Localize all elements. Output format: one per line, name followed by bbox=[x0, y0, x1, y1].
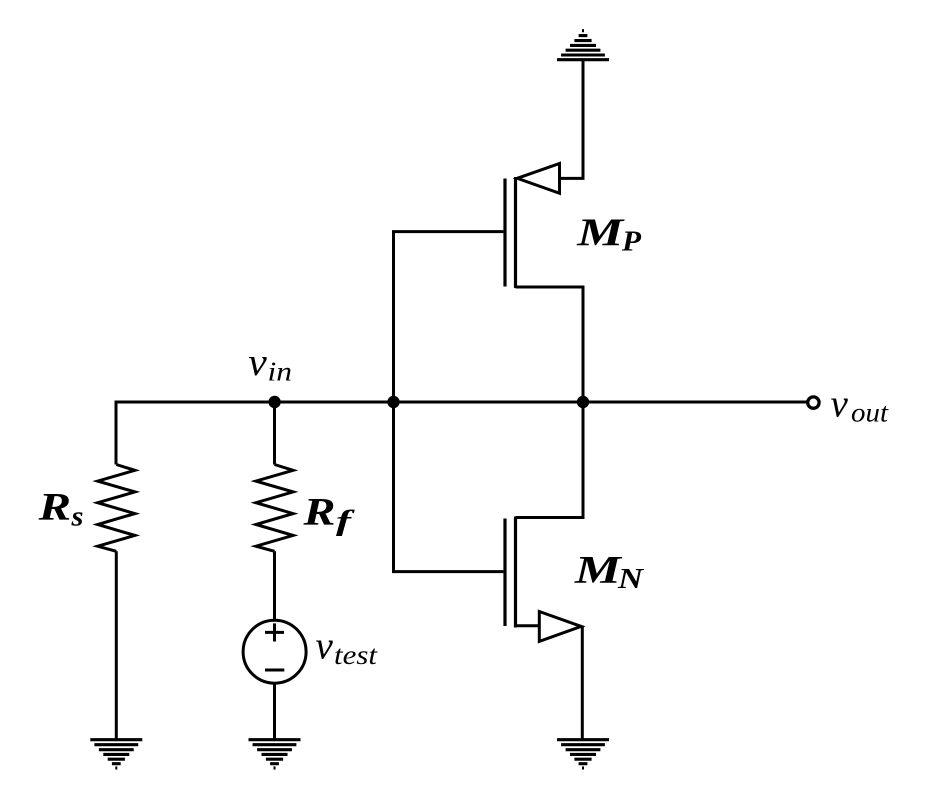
transistor M_N source arrow bbox=[539, 612, 581, 642]
wire R_s to ground bbox=[115, 551, 118, 739]
ground (below v_test) bbox=[249, 740, 301, 768]
voltage source v_test bbox=[243, 620, 306, 683]
node v_in junction dot bbox=[268, 396, 280, 408]
transistor M_P channel bar bbox=[514, 177, 517, 288]
node output junction dot bbox=[577, 396, 589, 408]
wire gate net bbox=[394, 232, 504, 572]
transistor M_N channel bar bbox=[514, 517, 517, 628]
transistor M_N gate bar bbox=[503, 519, 506, 627]
resistor R_s bbox=[98, 465, 135, 552]
wire M_P source to VDD ground bbox=[560, 60, 584, 179]
ground (left, below R_s) bbox=[90, 740, 142, 768]
label R_s bbox=[37, 486, 83, 533]
svg-text:v: v bbox=[248, 341, 267, 384]
transistor M_P source arrow bbox=[517, 164, 559, 194]
svg-text:s: s bbox=[70, 501, 83, 532]
wire v_in node down to R_f bbox=[273, 402, 276, 465]
label v_in bbox=[248, 341, 292, 386]
svg-text:v: v bbox=[316, 625, 334, 668]
node v_out terminal circle bbox=[808, 397, 819, 408]
svg-text:test: test bbox=[334, 640, 379, 670]
label v_test bbox=[316, 625, 379, 670]
svg-text:M: M bbox=[576, 211, 625, 254]
label M_P bbox=[576, 211, 642, 258]
wire M_P drain to output node bbox=[516, 287, 584, 402]
wire M_N source to ground bbox=[581, 627, 584, 740]
transistor M_P gate bar bbox=[503, 179, 506, 287]
resistor R_f bbox=[256, 465, 293, 552]
node gate junction dot bbox=[387, 396, 399, 408]
svg-text:R: R bbox=[302, 491, 335, 534]
svg-text:N: N bbox=[617, 564, 645, 595]
label v_out bbox=[831, 383, 890, 428]
svg-text:in: in bbox=[268, 356, 293, 386]
ground (bottom right, below M_N) bbox=[557, 740, 609, 768]
wire v_test to ground bbox=[273, 683, 276, 740]
wire R_f to v_test source bbox=[273, 551, 276, 620]
label R_f bbox=[302, 491, 355, 538]
svg-text:M: M bbox=[574, 548, 623, 591]
wire M_N source lead bbox=[516, 624, 540, 627]
svg-text:f: f bbox=[336, 506, 355, 537]
ground (top, inverted at VDD) bbox=[557, 31, 609, 60]
wire M_N drain to output node bbox=[516, 402, 584, 518]
svg-text:R: R bbox=[37, 486, 71, 529]
svg-text:P: P bbox=[621, 227, 642, 258]
svg-text:v: v bbox=[831, 383, 849, 426]
svg-text:out: out bbox=[851, 397, 890, 427]
wire main horizontal net v_in to output terminal with left drop bbox=[116, 402, 807, 465]
label M_N bbox=[574, 548, 646, 595]
